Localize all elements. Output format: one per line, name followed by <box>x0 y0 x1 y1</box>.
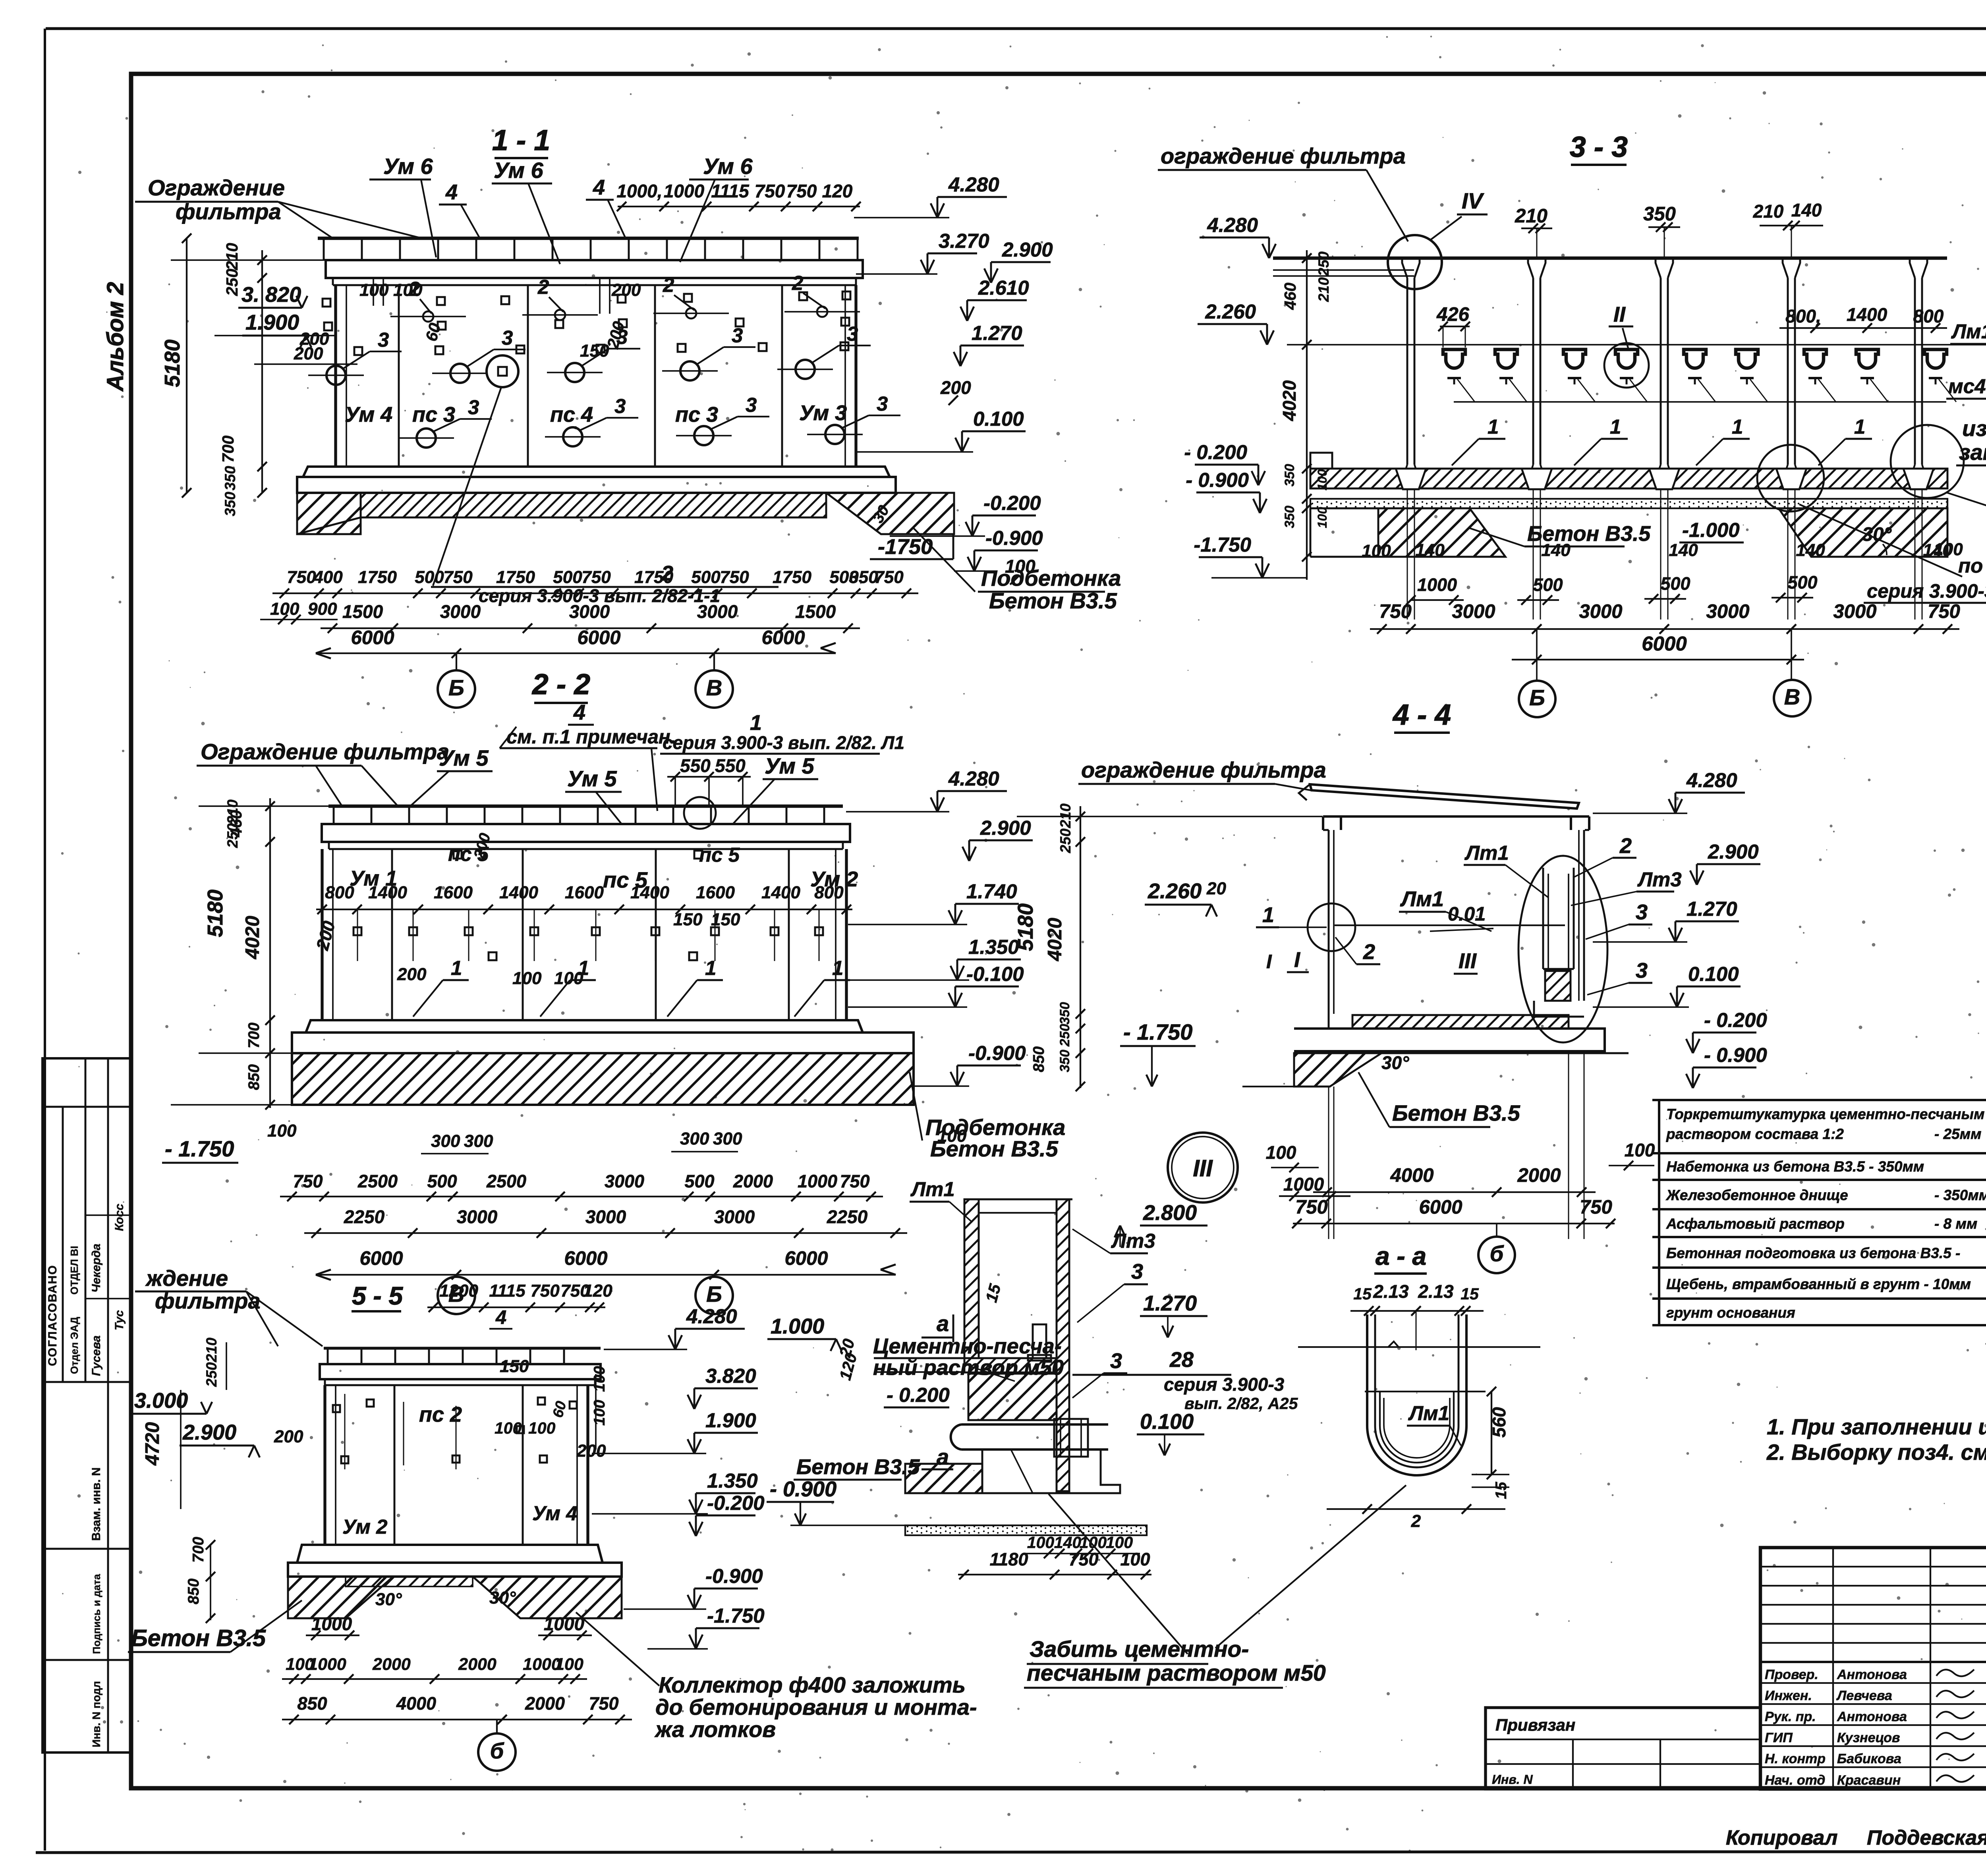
svg-text:140: 140 <box>1669 540 1698 560</box>
view 3-3 detail II marker <box>1604 303 1649 388</box>
view 4-4 floor hatch <box>1329 1014 1569 1029</box>
detail I izdelie label <box>1956 413 1986 465</box>
view 4-4 dim row 6000 <box>1292 1197 1615 1228</box>
view a-a top dims <box>1350 1281 1484 1350</box>
svg-text:210: 210 <box>1515 205 1547 227</box>
svg-text:2: 2 <box>537 276 549 298</box>
detail III left beton strip <box>794 1455 982 1493</box>
svg-text:3: 3 <box>1636 900 1648 924</box>
svg-text:Подпись и дата: Подпись и дата <box>91 1574 102 1654</box>
view 1-1 left dims <box>160 234 357 516</box>
svg-text:Рук. пр.: Рук. пр. <box>1765 1709 1816 1724</box>
view 3-3 left dim chain <box>1279 250 1332 580</box>
svg-text:1: 1 <box>832 957 843 979</box>
detail III concrete block <box>968 1374 1057 1420</box>
svg-text:1000: 1000 <box>1417 575 1457 595</box>
svg-text:2000: 2000 <box>525 1693 565 1714</box>
svg-text:140: 140 <box>1415 540 1445 560</box>
svg-text:750: 750 <box>582 567 611 587</box>
view 1-1 embedded plates (small squares) <box>323 291 850 355</box>
view 2-2 dimension row 6000 <box>316 1248 896 1280</box>
svg-text:1000: 1000 <box>544 1614 585 1634</box>
svg-text:- 25мм: - 25мм <box>1934 1126 1982 1142</box>
svg-text:2000: 2000 <box>1517 1165 1561 1186</box>
view 5-5 panel labels <box>342 1403 578 1538</box>
svg-text:3000: 3000 <box>1452 601 1495 622</box>
svg-text:0.100: 0.100 <box>1688 963 1739 985</box>
svg-text:Б: Б <box>448 675 464 700</box>
view 4-4 beton label <box>1358 1072 1520 1127</box>
svg-text:2000: 2000 <box>458 1655 496 1674</box>
svg-text:120: 120 <box>822 181 853 201</box>
svg-text:1600: 1600 <box>565 883 604 902</box>
svg-text:В: В <box>1784 684 1800 709</box>
view 1-1 dimension row small <box>272 567 918 598</box>
svg-text:1750: 1750 <box>773 567 811 587</box>
svg-text:6000: 6000 <box>1642 632 1687 655</box>
svg-text:Ум 6: Ум 6 <box>383 154 433 179</box>
svg-text:2.610: 2.610 <box>978 276 1029 299</box>
svg-text:Косс: Косс <box>113 1204 126 1231</box>
svg-text:пс 5: пс 5 <box>699 843 740 866</box>
svg-text:Бетонная подготовка из бетона: Бетонная подготовка из бетона В3.5 - <box>1666 1245 1960 1261</box>
svg-text:Гусева: Гусева <box>90 1336 103 1376</box>
view 2-2 550 550 dims <box>667 755 751 806</box>
svg-text:500: 500 <box>691 567 721 587</box>
svg-text:Провер.: Провер. <box>1765 1667 1818 1682</box>
svg-text:5180: 5180 <box>160 340 184 387</box>
svg-text:100: 100 <box>1934 540 1963 559</box>
svg-text:3.000: 3.000 <box>134 1389 188 1413</box>
svg-text:5180: 5180 <box>1014 903 1037 951</box>
svg-text:Взам. инв. N: Взам. инв. N <box>90 1467 103 1541</box>
view 1-1 pos2 series leader <box>431 387 779 606</box>
svg-text:140: 140 <box>1791 200 1822 220</box>
view 5-5 title <box>352 1282 403 1311</box>
svg-text:4: 4 <box>573 701 585 724</box>
svg-text:1: 1 <box>578 957 589 979</box>
svg-text:1400: 1400 <box>368 883 407 902</box>
svg-text:210: 210 <box>203 1338 220 1363</box>
view 4-4 bottom witness lines <box>1329 1053 1584 1239</box>
view 2-2 interior dim row <box>316 883 852 914</box>
svg-text:3: 3 <box>468 396 479 419</box>
note 2 <box>1766 1440 1986 1465</box>
svg-text:2 - 2: 2 - 2 <box>531 668 590 701</box>
view 1-1 wall panels <box>336 285 856 467</box>
svg-text:3000: 3000 <box>714 1206 755 1227</box>
svg-text:800: 800 <box>814 883 844 902</box>
svg-text:грунт основания: грунт основания <box>1666 1305 1795 1321</box>
view 2-2 panel labels <box>350 843 858 892</box>
svg-text:30°: 30° <box>375 1590 402 1609</box>
svg-text:серия 3.900-3 вып. 2/82. Л1: серия 3.900-3 вып. 2/82. Л1 <box>663 732 904 753</box>
svg-text:850: 850 <box>245 1064 263 1090</box>
svg-text:100: 100 <box>555 1655 583 1674</box>
svg-text:1: 1 <box>750 711 762 735</box>
view a-a ground lines <box>1298 1341 1540 1347</box>
view a-a right dims <box>1472 1387 1510 1499</box>
svg-text:3: 3 <box>378 328 389 351</box>
svg-text:2250: 2250 <box>827 1206 868 1227</box>
svg-text:6000: 6000 <box>577 627 620 648</box>
svg-text:пс 3: пс 3 <box>412 403 455 427</box>
svg-text:фильтра: фильтра <box>176 199 281 224</box>
detail III cement label left <box>870 1334 1064 1407</box>
svg-text:1750: 1750 <box>634 567 673 587</box>
view 1-1 pos4 callouts <box>439 176 626 238</box>
svg-text:3: 3 <box>847 322 858 345</box>
svg-text:Лм1: Лм1 <box>1951 320 1986 343</box>
svg-text:закладное: закладное <box>1959 440 1986 465</box>
svg-text:4.280: 4.280 <box>1686 769 1737 791</box>
svg-text:250: 250 <box>1316 251 1332 276</box>
svg-text:- 1.750: - 1.750 <box>1123 1019 1192 1044</box>
svg-text:2: 2 <box>1363 940 1375 964</box>
svg-text:I: I <box>1266 951 1272 973</box>
svg-text:песчаным раствором м50: песчаным раствором м50 <box>1027 1660 1326 1686</box>
view 2-2 pos1 callouts <box>413 957 850 1017</box>
svg-text:750: 750 <box>287 567 316 587</box>
layers table <box>1652 1100 1986 1325</box>
svg-text:III: III <box>1459 949 1477 973</box>
svg-text:серия 3.900-3, вып. 2/82, А.5: серия 3.900-3, вып. 2/82, А.5 <box>1867 581 1986 602</box>
svg-text:4000: 4000 <box>1390 1165 1433 1186</box>
svg-text:750: 750 <box>1295 1197 1328 1218</box>
svg-text:550: 550 <box>715 755 746 776</box>
svg-text:0.01: 0.01 <box>1448 903 1486 925</box>
svg-text:- 0.200: - 0.200 <box>1184 441 1247 463</box>
svg-text:Ум 6: Ум 6 <box>703 154 753 179</box>
svg-text:2.900: 2.900 <box>182 1421 236 1444</box>
svg-text:- 0.900: - 0.900 <box>1186 469 1249 491</box>
svg-text:100: 100 <box>1120 1549 1150 1569</box>
svg-text:28: 28 <box>1169 1348 1194 1372</box>
svg-text:Ум 3: Ум 3 <box>799 401 847 425</box>
svg-text:800,: 800, <box>1785 306 1821 326</box>
svg-text:Лт1: Лт1 <box>1464 841 1509 864</box>
detail III pier <box>982 1449 1120 1493</box>
view 5-5 bottom 1000 dims <box>306 1614 592 1640</box>
svg-text:-0.200: -0.200 <box>707 1492 765 1514</box>
svg-text:Торкретштукатурка цементно-пес: Торкретштукатурка цементно-песчаным <box>1666 1106 1984 1122</box>
svg-text:Ограждение: Ограждение <box>148 175 285 200</box>
svg-text:3: 3 <box>1110 1349 1122 1373</box>
view 3-3 po18 label <box>1799 504 1986 603</box>
svg-text:4720: 4720 <box>142 1422 163 1466</box>
svg-text:2: 2 <box>1411 1511 1421 1531</box>
view 3-3 left level marks <box>1184 214 1307 578</box>
svg-text:250: 250 <box>203 1362 220 1387</box>
svg-text:750: 750 <box>443 567 473 587</box>
svg-text:1400: 1400 <box>1847 304 1887 325</box>
view 4-4 detail oval <box>1518 856 1607 1042</box>
view 2-2 small dims <box>313 831 740 988</box>
svg-text:6000: 6000 <box>784 1248 828 1269</box>
svg-text:750: 750 <box>293 1171 323 1191</box>
view 1-1 panel labels <box>345 401 847 427</box>
svg-text:210: 210 <box>223 243 241 270</box>
view a-a U trough <box>1365 1314 1486 1475</box>
svg-text:750: 750 <box>874 567 904 587</box>
view 4-4 roof slope <box>1299 784 1579 809</box>
view 1-1 axis circle B <box>438 653 475 708</box>
svg-text:100: 100 <box>1625 1140 1655 1160</box>
svg-text:1500: 1500 <box>795 601 836 622</box>
view 5-5 base slab <box>288 1545 622 1577</box>
svg-text:2.260: 2.260 <box>1205 300 1256 323</box>
svg-text:250: 250 <box>1057 828 1074 853</box>
svg-text:1000: 1000 <box>798 1171 837 1191</box>
svg-text:Ум 2: Ум 2 <box>342 1515 388 1538</box>
svg-text:150: 150 <box>500 1357 529 1376</box>
svg-text:500: 500 <box>1660 573 1690 594</box>
svg-text:1.270: 1.270 <box>972 322 1022 344</box>
view 5-5 embedded squares <box>333 1394 577 1469</box>
svg-text:3: 3 <box>502 326 513 349</box>
view 5-5 small dims <box>274 1357 608 1461</box>
svg-text:2.800: 2.800 <box>1143 1201 1197 1225</box>
svg-text:850: 850 <box>297 1693 327 1714</box>
svg-text:Щебень, втрамбованный в грунт: Щебень, втрамбованный в грунт - 10мм <box>1666 1276 1971 1292</box>
view 3-3 guide line <box>1287 344 1986 345</box>
svg-text:15: 15 <box>1353 1285 1372 1303</box>
svg-text:750: 750 <box>589 1693 618 1714</box>
svg-text:1. При заполнении швов меж: 1. При заполнении швов между панелями за… <box>1767 1414 1986 1439</box>
svg-text:3: 3 <box>1636 959 1648 982</box>
svg-text:2000: 2000 <box>733 1171 773 1191</box>
svg-text:150: 150 <box>673 910 703 929</box>
svg-text:Кузнецов: Кузнецов <box>1837 1730 1900 1745</box>
title block separator <box>1760 1661 1986 1663</box>
svg-text:-1.000: -1.000 <box>1682 519 1740 541</box>
svg-text:0.100: 0.100 <box>973 407 1024 430</box>
view 1-1 dimension row 1500-3000 <box>321 601 860 633</box>
svg-text:3.820: 3.820 <box>705 1365 756 1387</box>
view 4-4 base band <box>1242 1029 1629 1087</box>
svg-text:Нач. отд: Нач. отд <box>1765 1773 1825 1788</box>
svg-text:100: 100 <box>937 1126 967 1146</box>
svg-text:2: 2 <box>792 272 803 294</box>
svg-text:210: 210 <box>1316 277 1332 302</box>
svg-text:750: 750 <box>1379 601 1412 622</box>
view 2-2 Um5 labels <box>411 745 818 824</box>
svg-text:3000: 3000 <box>457 1206 498 1227</box>
left margin stamp table <box>43 1058 131 1752</box>
svg-text:300: 300 <box>680 1129 709 1148</box>
view 2-2 foundation hatch <box>292 1053 914 1105</box>
svg-text:3000: 3000 <box>1706 601 1749 622</box>
svg-text:300: 300 <box>713 1129 742 1148</box>
svg-text:2: 2 <box>1619 834 1632 858</box>
svg-text:100: 100 <box>270 599 299 619</box>
svg-text:3000: 3000 <box>697 601 738 622</box>
view 3-3 wall studs <box>1402 258 1927 473</box>
view 5-5 dimension row B <box>282 1693 632 1724</box>
svg-text:750: 750 <box>1928 601 1960 622</box>
view 4-4 interior water line <box>1335 903 1565 931</box>
svg-text:- 8 мм: - 8 мм <box>1934 1216 1977 1232</box>
view 3-3 fence label <box>1158 143 1408 241</box>
svg-text:а: а <box>937 1444 949 1469</box>
svg-text:700: 700 <box>245 1023 263 1048</box>
svg-text:б: б <box>1490 1241 1504 1266</box>
svg-text:100: 100 <box>1362 541 1391 561</box>
svg-text:100: 100 <box>1266 1142 1296 1163</box>
svg-text:1.350: 1.350 <box>707 1469 758 1492</box>
svg-text:250: 250 <box>1057 1024 1072 1047</box>
svg-text:120: 120 <box>583 1281 612 1301</box>
svg-text:Копировал: Копировал <box>1726 1826 1837 1849</box>
svg-text:Бетон В3.5: Бетон В3.5 <box>131 1625 266 1651</box>
svg-text:а - а: а - а <box>1376 1242 1426 1270</box>
svg-text:- 1.750: - 1.750 <box>165 1136 234 1161</box>
svg-text:6000: 6000 <box>351 627 394 648</box>
view 2-2 base slab <box>292 1020 914 1053</box>
svg-text:4: 4 <box>445 180 458 204</box>
svg-text:1000: 1000 <box>311 1614 352 1634</box>
svg-text:200: 200 <box>576 1441 606 1461</box>
zabiť cement note <box>1024 1494 1326 1688</box>
svg-text:500: 500 <box>427 1171 457 1191</box>
svg-text:350: 350 <box>222 492 238 516</box>
svg-text:ОТДЕЛ ВI: ОТДЕЛ ВI <box>68 1246 80 1295</box>
svg-text:300: 300 <box>464 1131 493 1151</box>
svg-text:2.13: 2.13 <box>1418 1281 1454 1302</box>
svg-text:3000: 3000 <box>1579 601 1622 622</box>
view 4-4 dim row 4000 2000 <box>1313 1165 1596 1197</box>
svg-text:Отдел ЭАД: Отдел ЭАД <box>68 1316 80 1374</box>
svg-text:1600: 1600 <box>696 883 735 902</box>
svg-text:100: 100 <box>1315 507 1329 528</box>
svg-text:Ум 4: Ум 4 <box>532 1502 578 1525</box>
detail III minus 0900 <box>767 1477 906 1525</box>
privyazan annex <box>1486 1708 1760 1789</box>
view 2-2 dimension row B <box>280 1171 883 1201</box>
svg-text:Антонова: Антонова <box>1837 1709 1907 1724</box>
svg-text:5 - 5: 5 - 5 <box>352 1282 403 1310</box>
svg-text:ждение: ждение <box>145 1266 228 1291</box>
svg-text:серия 3.900-3: серия 3.900-3 <box>1164 1374 1285 1395</box>
svg-text:3000: 3000 <box>605 1171 644 1191</box>
view 3-3 pos1 callouts <box>1452 415 1872 465</box>
svg-text:4.280: 4.280 <box>686 1305 737 1328</box>
svg-text:350: 350 <box>222 466 238 490</box>
view 5-5 dimension row A <box>282 1655 587 1684</box>
detail III trough walls <box>874 1199 1072 1491</box>
view 1-1 pos3 hole circles upper row <box>308 322 871 385</box>
view 3-3 Lm1 ms4 labels <box>1946 320 1986 399</box>
view 5-5 left dims <box>131 1338 260 1623</box>
svg-text:-0.100: -0.100 <box>966 963 1024 985</box>
svg-text:20: 20 <box>1206 879 1226 898</box>
svg-text:4.280: 4.280 <box>948 173 999 196</box>
svg-text:2.900: 2.900 <box>980 816 1031 839</box>
svg-text:4020: 4020 <box>242 916 263 959</box>
view a-a title <box>1374 1242 1427 1274</box>
svg-text:200: 200 <box>611 280 641 300</box>
svg-text:350: 350 <box>1643 203 1676 225</box>
view 2-2 minus 1750 left <box>162 1136 238 1163</box>
view 3-3 concrete block left <box>1310 508 1505 557</box>
svg-text:100: 100 <box>1315 469 1329 490</box>
svg-text:Подбетонка: Подбетонка <box>981 566 1121 591</box>
view 3-3 cup dims 426 <box>1436 304 1470 347</box>
svg-text:ограждение фильтра: ограждение фильтра <box>1161 143 1406 168</box>
svg-text:- 0.900: - 0.900 <box>1704 1044 1767 1066</box>
view 3-3 cup dims 800 1400 800 <box>1779 304 1947 333</box>
svg-text:750: 750 <box>755 181 785 201</box>
svg-text:Ум 5: Ум 5 <box>567 766 617 791</box>
svg-text:100: 100 <box>591 1366 608 1392</box>
detail III upper labels <box>767 1178 972 1382</box>
view 2-2 bottom small dims <box>267 1121 967 1154</box>
svg-text:800: 800 <box>325 883 354 902</box>
view 1-1 central big hole <box>487 355 518 387</box>
svg-text:1: 1 <box>1854 415 1865 438</box>
svg-text:Красавин: Красавин <box>1837 1773 1901 1788</box>
svg-text:Бетон В3.5: Бетон В3.5 <box>1392 1100 1520 1125</box>
kopiroval note <box>1726 1826 1986 1849</box>
view 3-3 beton label <box>1470 519 1744 546</box>
view 3-3 trough cups <box>1443 349 1956 402</box>
note 1 <box>1767 1414 1986 1439</box>
svg-text:Лт3: Лт3 <box>1637 868 1682 891</box>
svg-text:4 - 4: 4 - 4 <box>1392 699 1451 731</box>
svg-text:3: 3 <box>877 392 888 415</box>
svg-text:3. 820: 3. 820 <box>241 283 301 307</box>
svg-text:I: I <box>1294 948 1300 972</box>
svg-text:850: 850 <box>185 1579 202 1604</box>
view 2-2 wall panels <box>322 849 846 1020</box>
svg-text:Антонова: Антонова <box>1837 1667 1907 1682</box>
view 1-1 small interior dims <box>299 278 641 361</box>
svg-text:- 0.900: - 0.900 <box>770 1477 837 1501</box>
svg-text:Бетон В3.5: Бетон В3.5 <box>796 1455 920 1479</box>
svg-text:1500: 1500 <box>342 601 383 622</box>
svg-text:3000: 3000 <box>569 601 610 622</box>
view 1-1 foundation hatch strip <box>297 493 954 534</box>
svg-text:4: 4 <box>495 1307 506 1328</box>
svg-text:1400: 1400 <box>499 883 538 902</box>
svg-text:400: 400 <box>313 567 343 587</box>
svg-text:850: 850 <box>1030 1046 1047 1072</box>
svg-text:Железобетонное днище: Железобетонное днище <box>1665 1187 1848 1203</box>
svg-text:2.13: 2.13 <box>1373 1281 1409 1302</box>
svg-text:Ум 5: Ум 5 <box>439 745 489 770</box>
svg-text:100: 100 <box>495 1419 522 1437</box>
svg-text:3: 3 <box>1131 1260 1143 1283</box>
svg-text:250: 250 <box>223 268 241 296</box>
collector note text <box>576 1612 977 1742</box>
svg-text:1.900: 1.900 <box>705 1409 756 1432</box>
view 4-4 title <box>1392 699 1451 733</box>
svg-text:100: 100 <box>267 1121 297 1141</box>
svg-text:100: 100 <box>512 969 542 988</box>
view 1-1 podbetonka label <box>914 528 1121 613</box>
svg-text:1.740: 1.740 <box>966 880 1017 903</box>
svg-text:В: В <box>706 675 722 700</box>
svg-text:140: 140 <box>1796 540 1825 560</box>
view 1-1 Um6 labels <box>369 154 753 264</box>
svg-text:5180: 5180 <box>203 890 227 937</box>
svg-text:750: 750 <box>1068 1549 1098 1569</box>
svg-text:1: 1 <box>1732 415 1743 438</box>
svg-text:1400: 1400 <box>630 883 669 902</box>
svg-text:-1.750: -1.750 <box>1194 533 1251 556</box>
svg-text:Поддевская: Поддевская <box>1867 1826 1986 1849</box>
svg-text:Н. контр: Н. контр <box>1765 1751 1826 1766</box>
